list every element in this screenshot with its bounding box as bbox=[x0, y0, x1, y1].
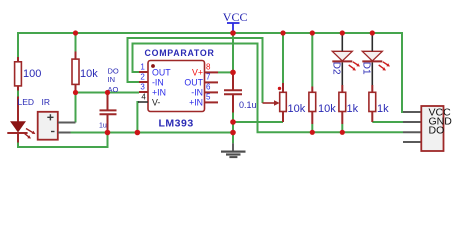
svg-text:DO: DO bbox=[429, 124, 445, 136]
resistor R4 1k pins bbox=[341, 85, 343, 124]
LED D3 cathode bar bbox=[7, 132, 27, 134]
LED D1 cathode bar bbox=[362, 60, 382, 62]
ground symbol bars bbox=[221, 151, 246, 159]
wire VCC column below C2 to gnd junctions bbox=[232, 113, 234, 144]
capacitor C1 1u plates bbox=[100, 110, 117, 114]
connector J1 box bbox=[421, 106, 443, 151]
U1 pin 2 stub bbox=[139, 81, 148, 83]
svg-text:LM393: LM393 bbox=[159, 118, 194, 130]
LED D3 cathode pin bbox=[17, 134, 19, 143]
svg-text:+IN: +IN bbox=[189, 97, 203, 107]
svg-text:+IN: +IN bbox=[152, 87, 166, 97]
junction dot rail at RV1 bbox=[280, 30, 285, 35]
svg-text:2: 2 bbox=[140, 72, 145, 81]
wire LED cathode to ground net bbox=[18, 133, 108, 148]
U1 pin 7 stub bbox=[205, 81, 219, 83]
connector J1 pin 2 stub bbox=[403, 121, 422, 123]
svg-text:10k: 10k bbox=[318, 103, 336, 115]
junction dot rail at R3 bbox=[310, 30, 315, 35]
svg-text:V+: V+ bbox=[192, 67, 203, 77]
LED D3 emission arrows bbox=[25, 129, 36, 139]
svg-text:D2: D2 bbox=[331, 62, 342, 75]
U1 pin1 marker dot bbox=[151, 64, 155, 68]
wire -IN pin2 loop to pot wiper bbox=[128, 38, 263, 103]
U1 pin 8 stub bbox=[205, 71, 219, 73]
wire rail drop to R3 10k bbox=[311, 32, 313, 87]
svg-text:1: 1 bbox=[140, 62, 145, 71]
wire VCC top rail bbox=[18, 32, 402, 34]
junction dot DO line at R3 bbox=[310, 130, 315, 135]
svg-text:OUT: OUT bbox=[184, 77, 203, 87]
U1 pin 4 stub bbox=[138, 101, 148, 103]
junction dot rail at D1 bbox=[370, 30, 375, 35]
junction dot node AO at R2 bottom bbox=[73, 90, 78, 95]
svg-text:IR: IR bbox=[42, 97, 51, 107]
svg-text:3: 3 bbox=[140, 82, 145, 91]
svg-text:1u: 1u bbox=[99, 123, 107, 130]
resistor R1 100 body bbox=[15, 62, 22, 86]
wire pin8 V+ to VCC column bbox=[218, 71, 233, 73]
U1 pin 5 stub bbox=[205, 101, 219, 103]
svg-text:COMPARATOR: COMPARATOR bbox=[145, 48, 215, 58]
power symbol VCC stem bbox=[232, 23, 234, 33]
connector J1 pin 3 stub bbox=[403, 131, 422, 133]
junction dot rail at D2 bbox=[340, 30, 345, 35]
potentiometer RV1 bottom pin bbox=[282, 112, 284, 123]
svg-text:LED: LED bbox=[18, 97, 35, 107]
IR module pin 1 bbox=[58, 122, 76, 124]
IR receiver module box bbox=[38, 112, 58, 140]
LED D2 triangle bbox=[332, 51, 352, 61]
wire rail drop to pot RV1 bbox=[282, 32, 284, 83]
resistor R3 10k body bbox=[309, 92, 316, 111]
LED D2 emission arrows bbox=[349, 62, 360, 71]
potentiometer RV1 body bbox=[280, 92, 287, 111]
wire AO down to IR pin + bbox=[75, 93, 77, 123]
capacitor C1 1u pins bbox=[107, 93, 109, 133]
svg-text:5: 5 bbox=[206, 92, 211, 101]
svg-text:VCC: VCC bbox=[223, 10, 248, 24]
wire V- pin4 to ground bus bbox=[137, 102, 139, 133]
svg-text:1k: 1k bbox=[377, 103, 389, 115]
svg-text:IN: IN bbox=[108, 75, 116, 84]
svg-text:8: 8 bbox=[206, 62, 211, 71]
junction dot V+ pin8 bbox=[230, 70, 236, 76]
wire R3 bottom to DO line bbox=[311, 124, 313, 132]
wire gnd junction to pot bottom bbox=[233, 121, 283, 123]
U1 pin 6 stub bbox=[205, 91, 219, 93]
resistor R5 1k pins bbox=[371, 85, 373, 122]
junction dot rail at R2 bbox=[73, 30, 78, 35]
potentiometer RV1 top marker dot bbox=[278, 87, 281, 90]
potentiometer RV1 top pin bbox=[282, 83, 284, 92]
LED D3 anode pin bbox=[17, 97, 19, 122]
wire rail drop to R2 10k bbox=[75, 32, 77, 52]
op-amp U1 LM393 box bbox=[148, 61, 205, 112]
resistor R2 10k body bbox=[72, 59, 79, 84]
svg-text:10k: 10k bbox=[288, 103, 306, 115]
svg-text:D1: D1 bbox=[361, 62, 372, 75]
ground symbol lead bbox=[232, 143, 234, 150]
potentiometer RV1 wiper arrow bbox=[263, 102, 275, 104]
junction dot DO line at R4 bbox=[340, 130, 345, 135]
resistor R4 1k body bbox=[339, 92, 346, 111]
wire R5 bottom to connector GND pin bbox=[372, 121, 403, 123]
capacitor C2 0.1u plates bbox=[224, 90, 242, 94]
wire OUT pin1 loop to DO line bbox=[133, 44, 404, 133]
resistor R1 100 pins bbox=[17, 57, 19, 91]
junction dot ground bus at V- drop bbox=[135, 130, 141, 136]
capacitor C2 0.1u top pin bbox=[232, 72, 234, 90]
svg-text:0.1u: 0.1u bbox=[239, 100, 257, 110]
svg-text:V-: V- bbox=[152, 97, 160, 107]
resistor R5 1k body bbox=[369, 92, 376, 111]
IR module plus mark bbox=[47, 114, 53, 120]
wire R4 bottom to DO line bbox=[341, 124, 343, 132]
wire VCC column above C2 bbox=[232, 32, 234, 72]
IR module minus mark bbox=[51, 131, 55, 133]
junction dot gnd bus to ground symbol bbox=[230, 130, 236, 136]
LED D2 cathode bar bbox=[332, 60, 352, 62]
wire R1 to LED gap bbox=[17, 90, 19, 97]
svg-text:1k: 1k bbox=[347, 103, 359, 115]
junction dot rail at VCC bbox=[230, 30, 236, 36]
LED D3 triangle bbox=[11, 122, 25, 132]
svg-text:-IN: -IN bbox=[191, 87, 203, 97]
svg-text:-IN: -IN bbox=[152, 77, 164, 87]
LED D1 anode+cathode line bbox=[371, 32, 373, 86]
svg-text:6: 6 bbox=[206, 82, 211, 91]
IR module pin 2 bbox=[58, 132, 71, 134]
wire left drop to R1 bbox=[17, 32, 19, 57]
LED D2 anode+cathode line bbox=[341, 32, 343, 86]
svg-text:100: 100 bbox=[23, 68, 41, 80]
svg-text:10k: 10k bbox=[80, 68, 98, 80]
resistor R2 10k pins bbox=[75, 52, 77, 93]
capacitor C2 0.1u bottom pin bbox=[232, 94, 234, 112]
connector J1 pin 4 stub bbox=[403, 141, 422, 143]
junction dot gnd to pot wire bbox=[230, 119, 236, 125]
connector J1 pin 1 stub bbox=[403, 111, 422, 113]
wire ground bus bottom bbox=[71, 132, 234, 134]
junction dot ground bus at C1 bottom bbox=[105, 130, 111, 136]
U1 pin 1 stub bbox=[139, 71, 148, 73]
power symbol VCC bar bbox=[227, 22, 240, 24]
svg-text:OUT: OUT bbox=[152, 67, 171, 77]
resistor R3 10k pins bbox=[311, 87, 313, 125]
junction dot node AO at C1 top bbox=[105, 90, 110, 95]
wire node AO horizontal bbox=[76, 92, 140, 94]
U1 pin 3 stub bbox=[139, 91, 148, 93]
LED D1 emission arrows bbox=[379, 62, 390, 71]
svg-text:4: 4 bbox=[141, 92, 146, 101]
wire rail right drop to connector VCC pin bbox=[402, 32, 404, 112]
LED D1 triangle bbox=[362, 51, 382, 61]
svg-text:7: 7 bbox=[206, 72, 211, 81]
